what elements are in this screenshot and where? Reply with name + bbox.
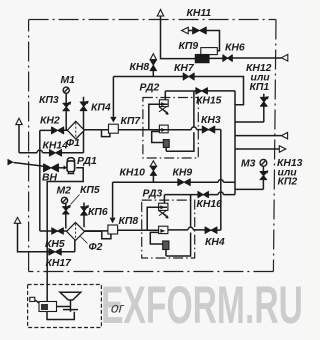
svg-text:ог: ог: [109, 301, 126, 317]
svg-text:КН8: КН8: [130, 62, 150, 73]
svg-text:КП8: КП8: [119, 216, 139, 227]
svg-text:КН7: КН7: [174, 63, 195, 74]
svg-text:КН9: КН9: [173, 167, 193, 178]
svg-text:КП5: КП5: [80, 185, 100, 196]
svg-text:КН11: КН11: [187, 8, 212, 19]
svg-text:КН6: КН6: [225, 43, 245, 54]
svg-text:КН14: КН14: [43, 141, 69, 152]
svg-text:КП2: КП2: [278, 177, 298, 188]
svg-text:КН16: КН16: [197, 199, 223, 210]
svg-text:КН2: КН2: [40, 116, 60, 127]
svg-text:М3: М3: [241, 158, 256, 169]
svg-text:М2: М2: [57, 186, 72, 197]
svg-text:РД2: РД2: [140, 83, 160, 94]
svg-text:КН3: КН3: [201, 115, 221, 126]
svg-text:КП6: КП6: [88, 207, 108, 218]
svg-text:КП4: КП4: [91, 103, 111, 114]
svg-text:КН10: КН10: [120, 168, 146, 179]
svg-text:КН4: КН4: [205, 237, 225, 248]
svg-text:КН15: КН15: [196, 96, 222, 107]
svg-text:КП1: КП1: [250, 82, 270, 93]
svg-text:РД3: РД3: [143, 189, 163, 200]
svg-text:КН17: КН17: [46, 258, 73, 269]
svg-text:КП7: КП7: [121, 116, 142, 127]
svg-text:Ф2: Ф2: [89, 242, 103, 253]
svg-text:ВН: ВН: [42, 173, 58, 184]
svg-text:КП3: КП3: [39, 95, 59, 106]
svg-text:КП9: КП9: [179, 41, 199, 52]
svg-text:РД1: РД1: [77, 156, 97, 167]
svg-text:Ф1: Ф1: [66, 138, 80, 149]
svg-text:М1: М1: [61, 75, 76, 86]
svg-text:КН5: КН5: [45, 239, 65, 250]
